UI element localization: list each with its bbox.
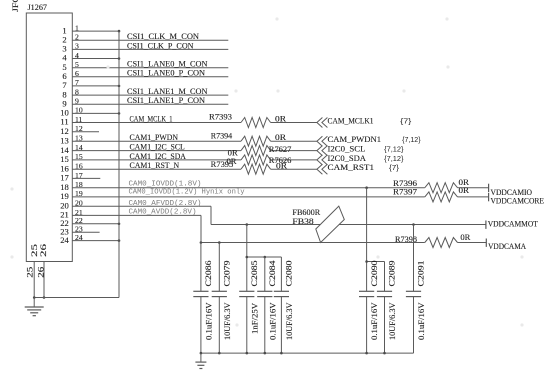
wire pin 20 corner down [210,206,212,224]
svg-text:C2084: C2084 [268,260,277,287]
value 0R of R7394 [275,133,286,142]
svg-text:0R: 0R [275,114,286,123]
ground symbol at connector [25,298,44,316]
capacitor C2090 [359,291,374,353]
svg-text:0.1uF/16V: 0.1uF/16V [268,302,277,340]
value 0.1uF/16V of C2090 [370,302,379,340]
label R7397 [393,187,417,196]
svg-text:{7,12}: {7,12} [384,156,404,163]
wire AFVDD rail to ferrite [211,224,320,226]
power port VDDCAMIO [489,184,532,198]
off-page connector chevron CAM_MCLK1 [317,118,328,128]
resistor R7394 body [241,136,271,146]
value 0R of R7626 [227,157,237,166]
wire ferrite to VDDCAMMOT [339,224,486,226]
wire pin 14 net CAM1_I2C_SCL [72,150,241,152]
wire pin 1 to ground bus [72,30,120,33]
junction C2085 tap [246,223,249,226]
ground symbol at capacitor rail [195,353,206,368]
wire pin 11 net CAM_MCLK_1 [72,122,241,124]
svg-text:CSI1_CLK_M_CON: CSI1_CLK_M_CON [127,32,199,41]
wire pin 19 CAM0_IOVDD 1.2V [72,196,425,198]
wire pin 18 CAM0_IOVDD 1.8V [72,187,425,189]
wire R7398 to VDDCAMA [458,242,487,244]
label C2079 [223,261,232,287]
net label CAM0_IOVDD(1.8V) [129,180,202,188]
svg-text:{7}: {7} [389,165,400,172]
wire pin 12 stub (no connect) [72,131,99,133]
connector part name JFC (rotated, clipped) [10,0,20,12]
power port VDDCAMCORE [489,193,544,205]
label R7627 [269,145,292,154]
net label CAM1_I2C_SDA [130,152,186,161]
value 1nF/25V of C2085 [250,303,259,334]
junction subrail B at C2085 [246,256,249,259]
wire R7395 to net CAM_RST1 [271,168,317,170]
label FB38 [292,217,313,226]
net label CAM0_AVDD(2.8V) [129,208,197,216]
value 0R of R7398 [460,233,470,242]
wire pin 8 net CSI1_LANE1_M_CON [72,94,228,96]
svg-text:{7,12}: {7,12} [402,137,421,144]
net label CSI1_CLK_M_CON [127,32,199,41]
svg-text:CAM0_AFVDD(2.8V): CAM0_AFVDD(2.8V) [129,200,202,208]
svg-text:VDDCAMA: VDDCAMA [488,242,526,251]
value 0R of R7396 [459,178,470,187]
junctions on capacitor ground rail [200,352,386,355]
svg-text:C2089: C2089 [388,261,397,287]
svg-text:C2080: C2080 [285,261,294,287]
wire pin 5 net CSI1_LANE0_M_CON [72,67,228,69]
wire pin 9 net CSI1_LANE1_P_CON [72,103,228,105]
wire AVDD rail [201,242,425,244]
net label CAM0_IOVDD(1.2V) Hynix only [129,188,245,196]
value 0R of R7627 [228,148,238,157]
pin number 25 on wire [26,267,35,278]
capacitor C2089 [377,291,392,353]
svg-text:CAM1_PWDN: CAM1_PWDN [130,133,179,142]
svg-text:CAM0_IOVDD(1.8V): CAM0_IOVDD(1.8V) [129,180,202,188]
svg-text:CSI1_LANE1_P_CON: CSI1_LANE1_P_CON [127,96,205,105]
label C2085 [250,261,259,287]
capacitor C2080 [274,291,289,353]
sheet reference {7,12} for I2C0_SCL [384,147,404,154]
wire pin 4 to ground bus [72,57,120,60]
svg-text:C2086: C2086 [204,261,213,287]
wire pin 7 to ground bus [72,85,120,88]
wire C2091 top [413,225,415,292]
svg-text:I2C0_SDA: I2C0_SDA [328,154,367,163]
net label CAM1_RST_N [130,161,180,170]
off-page connector chevron I2C0_SDA [317,155,328,165]
svg-text:CAM0_IOVDD(1.2V) Hynix only: CAM0_IOVDD(1.2V) Hynix only [129,188,245,196]
junction C2079 tap [218,241,221,244]
wire pin 10 to ground bus [72,112,120,115]
junction C2086 tap [200,241,203,244]
wire C2089 top [384,262,386,292]
svg-text:R7395: R7395 [211,160,234,169]
net label CAM1_I2C_SCL [130,143,185,152]
svg-text:0R: 0R [460,233,470,242]
wire R7393 to net CAM_MCLK1 [271,122,317,124]
wire pin 20 CAM0_AFVDD 2.8V [72,205,211,207]
svg-text:JFC: JFC [10,0,20,12]
net label CSI1_LANE1_P_CON [127,96,205,105]
label C2084 [268,260,277,287]
svg-text:C2091: C2091 [417,261,426,287]
net label I2C0_SDA [328,154,367,163]
value 0R of R7395 [276,162,287,171]
resistor R7396 body [425,183,458,193]
svg-text:{7}: {7} [400,118,412,125]
junction C2090 tap [365,186,368,189]
wire C2090 top [366,188,368,292]
value 0R of R7393 [275,114,286,123]
wire R7397 to VDDCAMCORE [458,196,489,198]
svg-text:25: 25 [26,267,35,278]
net label CSI1_LANE0_M_CON [127,60,208,69]
svg-text:0R: 0R [275,133,286,142]
wire pin 2 net CSI1_CLK_M_CON [72,39,228,41]
resistor R7398 body [425,238,458,248]
label C2090 [370,261,379,287]
wire C2084 top [264,257,266,291]
net label CSI1_LANE0_P_CON [127,69,205,78]
svg-text:R7393: R7393 [209,112,232,121]
svg-text:R7397: R7397 [393,187,417,196]
wire pin 25 down [33,262,35,298]
junction pin25-gnd [33,296,36,299]
svg-text:0.1uF/16V: 0.1uF/16V [205,302,214,340]
svg-text:1nF/25V: 1nF/25V [250,303,259,334]
svg-text:CAM0_AVDD(2.8V): CAM0_AVDD(2.8V) [129,208,197,216]
svg-text:CAM_PWDN1: CAM_PWDN1 [328,135,382,144]
connector pin numbers 1-24 inside body [60,25,69,245]
resistor R7627 body [241,146,271,156]
svg-text:10UF/6.3V: 10UF/6.3V [388,302,397,340]
label C2089 [388,261,397,287]
off-page connector chevron CAM_RST1 [317,164,328,174]
label FB600R [292,208,320,217]
svg-text:CAM1_I2C_SDA: CAM1_I2C_SDA [130,152,186,161]
pin number 25 inside body [30,244,39,257]
svg-text:26: 26 [39,244,48,257]
svg-text:C2090: C2090 [370,261,379,287]
label C2080 [285,261,294,287]
capacitor C2084 [257,291,272,353]
junction subrail B at C2084 [264,256,267,259]
wire C2080 top [280,257,282,291]
wire R7627 to net I2C0_SCL [271,150,317,152]
sheet reference {7} for CAM_MCLK1 [400,118,412,125]
wire C2079 top [218,243,220,292]
wire R7394 to net CAM_PWDN1 [271,140,317,142]
resistor R7393 body [241,118,271,128]
resistor R7395 body [241,164,271,174]
net label CAM_MCLK1 [328,116,374,125]
wire pin 17 stub (no connect) [72,177,100,179]
svg-text:R7394: R7394 [211,132,233,141]
capacitor C2091 [406,291,421,353]
svg-text:{7,12}: {7,12} [384,147,404,154]
label R7393 [209,112,232,121]
net label CAM0_AFVDD(2.8V) [129,200,202,208]
svg-text:CAM_MCLK1: CAM_MCLK1 [328,116,374,125]
wire pin 6 net CSI1_LANE0_P_CON [72,76,228,78]
junction C2091 tap [412,223,415,226]
wire R7396 to VDDCAMIO [458,187,489,189]
svg-text:CAM1_I2C_SCL: CAM1_I2C_SCL [130,143,185,152]
net label CAM1_PWDN [130,133,179,142]
connector J1267 body [26,13,72,262]
wire pin 21 CAM0_AVDD 2.8V [72,214,201,216]
svg-text:CSI1_CLK_P_CON: CSI1_CLK_P_CON [127,41,194,50]
wire C2086 top [200,243,202,292]
value 0R of R7397 [459,186,470,195]
wire C2085 top [246,225,248,292]
off-page connector chevron CAM_PWDN1 [317,136,328,146]
value 0.1uF/16V of C2084 [268,302,277,340]
svg-text:J1267: J1267 [28,2,48,12]
svg-text:24: 24 [60,235,69,245]
svg-text:I2C0_SCL: I2C0_SCL [328,145,366,154]
svg-text:C2079: C2079 [223,261,232,287]
capacitor C2079 [212,291,227,353]
wire R7626 to net I2C0_SDA [271,159,317,161]
svg-text:CAM_RST1: CAM_RST1 [328,163,375,172]
label C2086 [204,261,213,287]
capacitor C2085 [239,291,254,353]
value 10UF/6.3V of C2089 [388,302,397,340]
svg-text:R7627: R7627 [269,145,292,154]
svg-text:FB38: FB38 [292,217,313,226]
ground rail under connector [34,297,119,299]
wire pin 21 corner down [200,215,202,242]
sheet reference {7,12} for I2C0_SDA [384,156,404,163]
wire pin 16 net CAM1_RST_N [72,168,241,170]
sub-rail group C [367,261,385,263]
sheet reference {7} for CAM_RST1 [389,165,400,172]
svg-text:VDDCAMCORE: VDDCAMCORE [491,196,545,205]
wire pin 13 net CAM1_PWDN [72,140,241,142]
resistor R7626 body [241,155,271,165]
net label I2C0_SCL [328,145,366,154]
label R7398 [395,235,417,244]
label R7626 [269,156,292,165]
off-page connector chevron I2C0_SCL [317,146,328,156]
label R7396 [393,179,417,188]
capacitor C2086 [193,291,208,353]
net label CAM_PWDN1 [328,135,382,144]
label C2091 [417,261,426,287]
sub-rail group B [247,256,282,258]
capacitor ground rail [201,352,414,354]
svg-text:VDDCAMMOT: VDDCAMMOT [488,220,538,229]
svg-text:C2085: C2085 [250,261,259,287]
value 0.1uF/16V of C2086 [205,302,214,340]
value 10UF/6.3V of C2080 [285,302,294,340]
svg-text:0.1uF/16V: 0.1uF/16V [417,302,426,340]
svg-text:10UF/6.3V: 10UF/6.3V [223,302,232,340]
net label CAM_MCLK_1 [130,114,173,123]
decor [10,17,523,326]
pin numbers 1-24 on pin wires [75,23,83,242]
sheet reference {7,12} for CAM_PWDN1 [402,137,421,144]
ground bus vertical [118,31,120,297]
wire pin 26 down [43,262,46,299]
wire pin 23 stub (no connect) [72,231,99,233]
svg-text:0R: 0R [276,162,287,171]
svg-text:CAM_MCLK_1: CAM_MCLK_1 [130,114,173,123]
svg-text:10UF/6.3V: 10UF/6.3V [285,302,294,340]
net label CSI1_CLK_P_CON [127,41,194,50]
net label CAM_RST1 [328,163,375,172]
value 0.1uF/16V of C2091 [417,302,426,340]
svg-text:CAM1_RST_N: CAM1_RST_N [130,161,180,170]
net label CSI1_LANE1_M_CON [127,87,208,96]
svg-text:CSI1_LANE0_M_CON: CSI1_LANE0_M_CON [127,60,208,69]
power port VDDCAMMOT [486,220,538,229]
wire pin 3 net CSI1_CLK_P_CON [72,48,228,50]
wire pin 22 to ground bus [72,223,120,226]
label R7394 [211,132,233,141]
pin number 26 inside body [39,244,48,257]
svg-text:CSI1_LANE1_M_CON: CSI1_LANE1_M_CON [127,87,208,96]
label R7395 [211,160,234,169]
ferrite bead FB38 body [316,206,345,242]
junction subrail C at C2090 [365,260,368,263]
svg-text:0.1uF/16V: 0.1uF/16V [370,302,379,340]
resistor R7397 body [425,192,458,202]
svg-text:0R: 0R [459,186,470,195]
wire pin 24 to ground bus [72,239,120,242]
value 10UF/6.3V of C2079 [223,302,232,340]
svg-text:CSI1_LANE0_P_CON: CSI1_LANE0_P_CON [127,69,205,78]
connector reference designator J1267 [28,2,48,12]
wire pin 15 net CAM1_I2C_SDA [72,159,241,161]
pin number 26 on wire [36,267,45,278]
power port VDDCAMA [486,239,526,252]
